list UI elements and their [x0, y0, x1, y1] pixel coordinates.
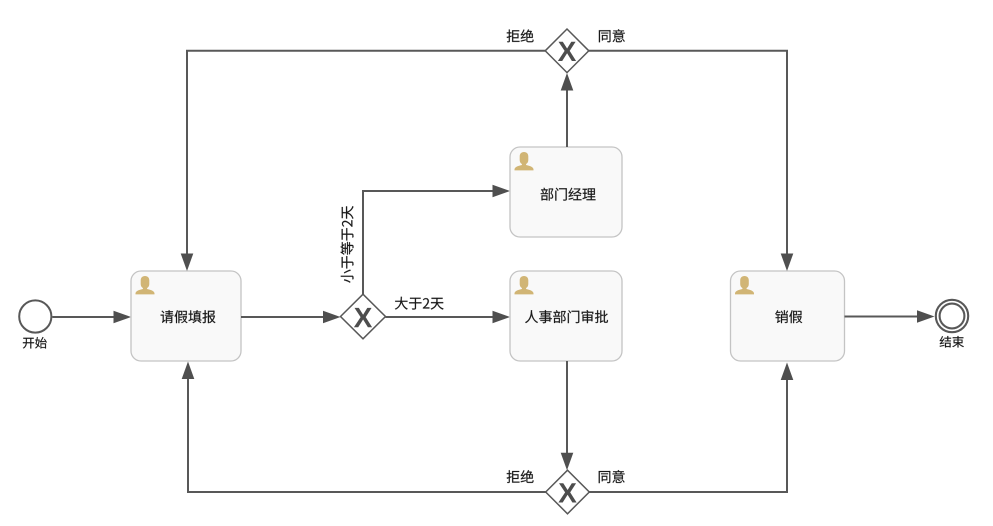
wire gateway G3 right 同意 to task 销假 bottom — [589, 363, 793, 493]
wire gateway G2 left 拒绝 to task 请假填报 top — [181, 51, 546, 271]
user task 请假填报 — [131, 271, 241, 361]
wire gateway G2 right 同意 to task 销假 top — [589, 51, 794, 271]
wire task 部门经理 up to top gateway G2 — [561, 73, 574, 147]
user task 销假 — [731, 271, 845, 361]
label 结束 — [940, 336, 964, 348]
wire gateway G1 to task 人事部门审批 (大于2天) — [386, 311, 511, 324]
label 开始 — [23, 337, 47, 349]
wire start event to task 请假填报 — [52, 311, 131, 324]
label 拒绝 (bottom) — [507, 470, 534, 483]
end event circle 结束 — [936, 300, 968, 332]
wire gateway G1 up and right to task 部门经理 (小于等于2天) — [363, 185, 510, 295]
user task 部门经理 — [510, 147, 622, 237]
user task 人事部门审批 — [510, 271, 622, 361]
label 同意 (top) — [599, 29, 625, 42]
wire gateway G3 left 拒绝 to task 请假填报 bottom — [182, 362, 546, 493]
exclusive gateway G3 (bottom) — [546, 470, 590, 514]
wire task 人事部门审批 down to bottom gateway G3 — [561, 361, 574, 470]
start event circle 开始 — [19, 300, 51, 332]
exclusive gateway G1 — [341, 294, 386, 339]
label 小于等于2天 (rotated) — [341, 206, 354, 283]
wire task 销假 to end event — [845, 310, 935, 323]
label 大于2天 — [395, 297, 444, 310]
wire task 请假填报 to gateway G1 — [241, 311, 341, 324]
label 同意 (bottom) — [599, 470, 625, 483]
exclusive gateway G2 (top) — [545, 29, 589, 73]
label 拒绝 (top) — [507, 29, 534, 42]
